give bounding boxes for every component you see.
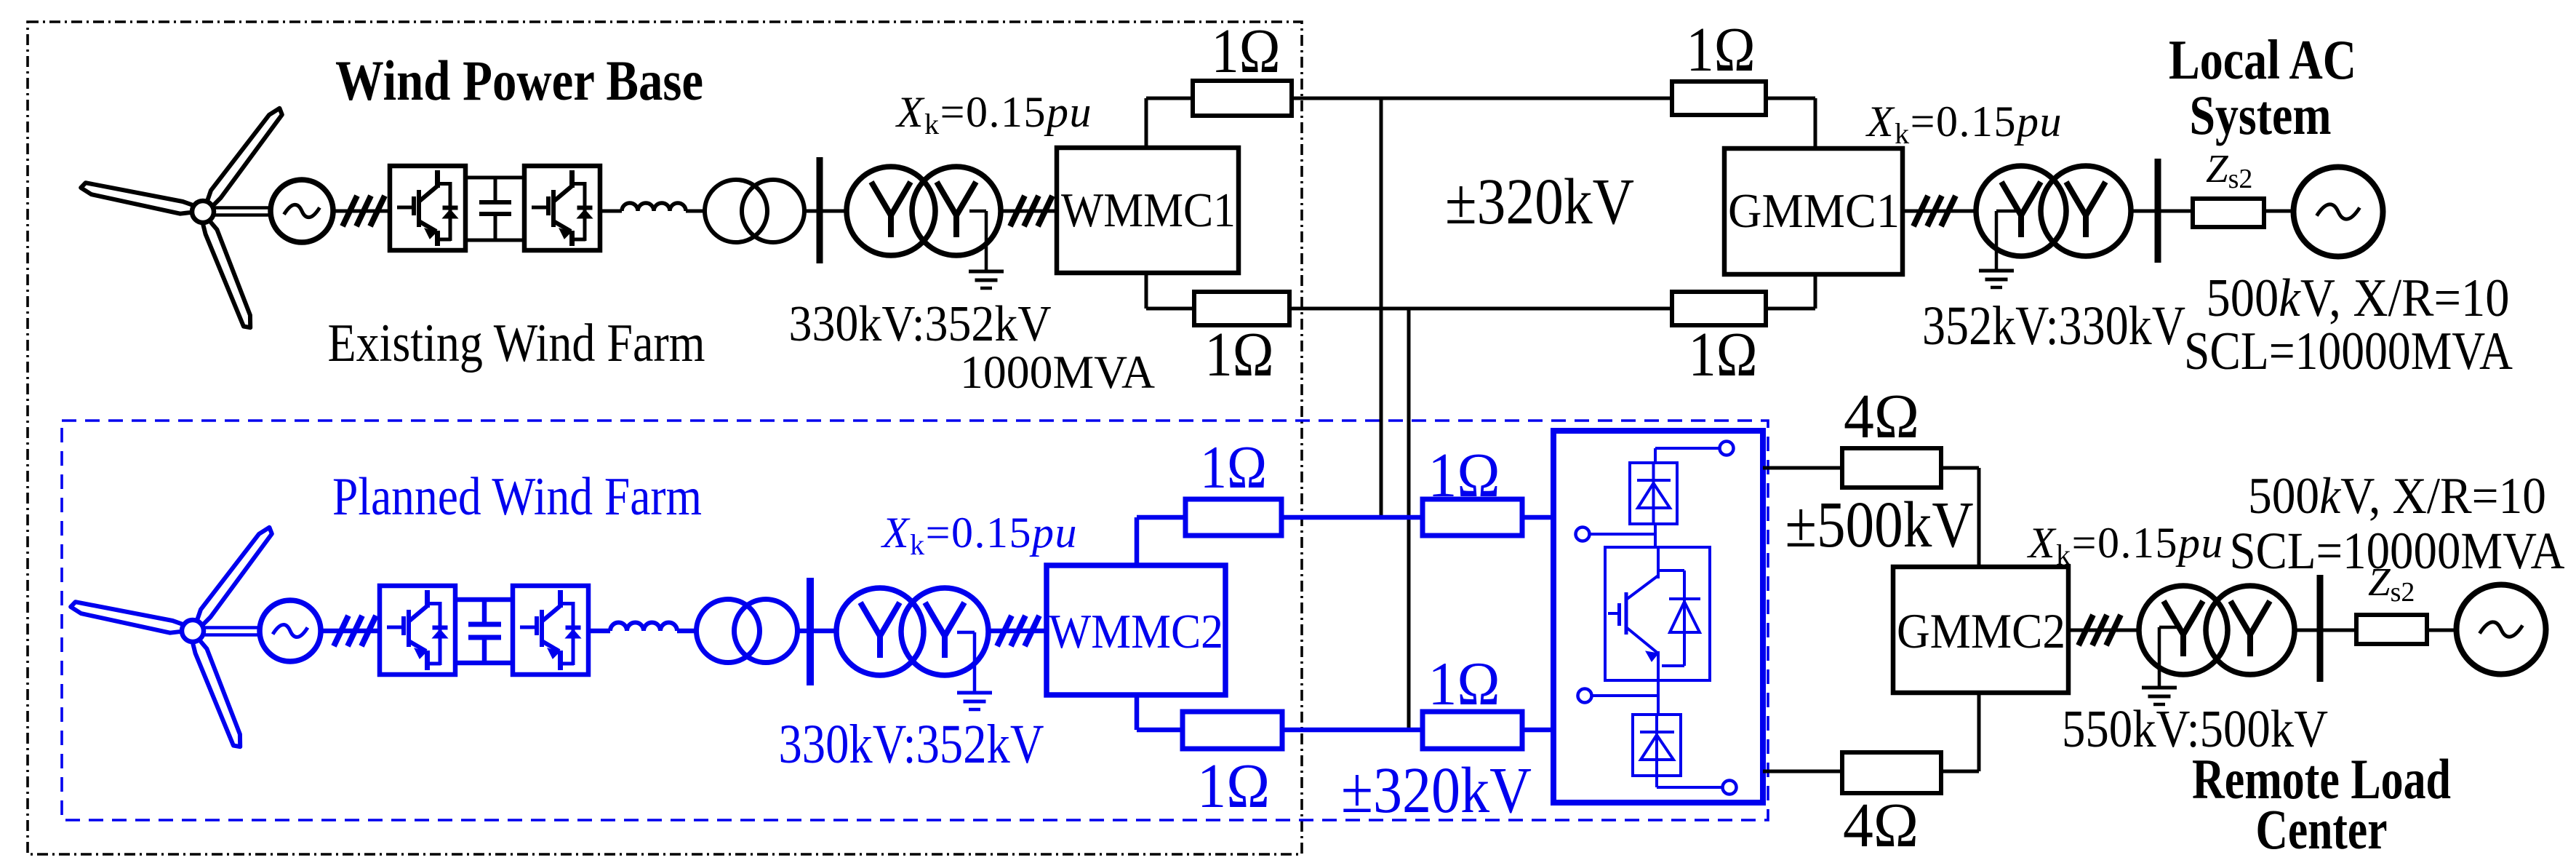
AC grid source G2 [2294, 167, 2383, 257]
svg-text:500kV, X/R=10: 500kV, X/R=10 [2207, 269, 2510, 328]
wire [1001, 210, 1057, 213]
resistor R7 1Ω [1183, 712, 1282, 749]
terminal node mid-left lower [1578, 689, 1592, 703]
wire [588, 629, 610, 634]
resistor R1 1Ω [1193, 81, 1292, 116]
wire WMMC1 bottom to R3 [1145, 271, 1148, 309]
dash-dot boundary of Wind Power Base [28, 22, 1302, 854]
converter WMMC2 [1047, 565, 1225, 695]
wire [1903, 210, 1977, 213]
hatch marks (3-phase) [343, 196, 357, 226]
wire [686, 210, 705, 213]
bus bar B2 [2155, 159, 2161, 263]
transformer T1 [705, 180, 767, 242]
wire [1655, 776, 1658, 787]
wire [1655, 447, 1719, 450]
wire [2068, 629, 2139, 632]
converter GMMC2 [1893, 567, 2068, 693]
svg-text:4Ω: 4Ω [1843, 790, 1919, 860]
resistor R8 1Ω [1423, 712, 1522, 749]
resistor R5 1Ω [1185, 499, 1281, 536]
svg-text:GMMC1: GMMC1 [1728, 184, 1900, 238]
svg-text:1Ω: 1Ω [1197, 750, 1270, 821]
converter VSC1 with IGBT [390, 166, 465, 250]
IGBT Q3 [1608, 612, 1619, 615]
svg-text:WMMC2: WMMC2 [1049, 605, 1223, 659]
AC grid source G4 [2457, 585, 2546, 675]
ground of T2 [969, 210, 986, 213]
terminal node mid-left upper [1576, 528, 1590, 541]
resistor R3 1Ω [1194, 292, 1289, 325]
svg-text:WMMC1: WMMC1 [1061, 183, 1236, 237]
wire [986, 629, 1047, 634]
svg-text:±320kV: ±320kV [1341, 755, 1532, 827]
svg-text:1Ω: 1Ω [1687, 14, 1756, 84]
terminal node top-right [1720, 442, 1734, 456]
wire [2264, 210, 2293, 213]
bus bar B4 [2317, 575, 2324, 682]
DC-link rail bottom [465, 239, 524, 242]
shaft wire [214, 206, 272, 210]
svg-text:±320kV: ±320kV [1445, 166, 1634, 238]
wind turbine WT2 [197, 528, 272, 625]
svg-text:1000MVA: 1000MVA [960, 346, 1155, 399]
wire [600, 210, 622, 213]
ground of T3 [1996, 210, 2016, 213]
ground of T6 [2159, 626, 2180, 629]
capacitor C2 [482, 600, 487, 624]
wire [1657, 651, 1660, 716]
wire [1654, 524, 1657, 549]
wire [331, 210, 390, 213]
resistor R2 1Ω [1672, 81, 1766, 115]
transformer T5 (Y-Y) [836, 588, 924, 675]
svg-text:±500kV: ±500kV [1785, 489, 1974, 561]
wire [797, 629, 838, 634]
wire DC tap A [1380, 97, 1383, 517]
svg-text:1Ω: 1Ω [1428, 650, 1500, 718]
wire [1941, 770, 1979, 773]
svg-text:Local AC: Local AC [2169, 28, 2356, 91]
transformer T4 [697, 600, 760, 663]
svg-text:SCL=10000MVA: SCL=10000MVA [2230, 522, 2565, 580]
diode module D1 [1630, 463, 1677, 524]
wire [1282, 728, 1423, 733]
svg-text:1Ω: 1Ω [1689, 319, 1758, 389]
DC/DC converter outer box [1553, 431, 1763, 803]
switch module box [1605, 547, 1710, 680]
converter WMMC1 [1057, 148, 1239, 273]
wire R2 to GMMC1 [1766, 97, 1815, 100]
converter GMMC1 [1724, 148, 1903, 274]
resistor R9 4Ω [1842, 448, 1941, 488]
wire DC pole positive [1292, 97, 1674, 100]
terminal node bottom-right [1723, 781, 1737, 795]
svg-text:1Ω: 1Ω [1205, 319, 1274, 389]
wire [2131, 210, 2193, 213]
wire [1657, 547, 1660, 578]
hatch marks (3-phase) [1913, 196, 1928, 226]
resistor R4 1Ω [1672, 292, 1766, 325]
wire [1763, 770, 1842, 773]
wire [319, 629, 380, 634]
wire R6 to DC/DC [1522, 515, 1556, 520]
svg-text:1Ω: 1Ω [1200, 434, 1267, 501]
wire [804, 210, 847, 213]
inductor L2 [610, 623, 677, 632]
DC-link rail bottom [454, 661, 513, 666]
DC-link rail top [465, 176, 524, 180]
diode module D3 [1633, 715, 1681, 776]
svg-text:Planned Wind Farm: Planned Wind Farm [332, 467, 702, 527]
transformer T3 (Y-Y) [1976, 166, 2066, 256]
wire DC tap B [1407, 307, 1411, 730]
svg-text:500kV, X/R=10: 500kV, X/R=10 [2248, 468, 2546, 525]
wire WMMC1 top to R1 [1145, 98, 1148, 150]
converter VSC3 with IGBT [380, 586, 455, 675]
bus bar B3 [807, 578, 814, 685]
svg-text:330kV:352kV: 330kV:352kV [789, 296, 1052, 352]
wire R8 to DC/DC [1522, 728, 1556, 733]
wire [1941, 466, 1979, 470]
svg-text:330kV:352kV: 330kV:352kV [779, 714, 1044, 775]
svg-text:Existing Wind Farm: Existing Wind Farm [328, 314, 705, 373]
wire DC pole negative [1289, 307, 1674, 311]
svg-text:1Ω: 1Ω [1428, 440, 1500, 510]
svg-text:4Ω: 4Ω [1844, 381, 1919, 451]
transformer T2 (Y-Y) [847, 167, 935, 255]
converter VSC4 with IGBT [513, 586, 588, 675]
AC machine G3 [260, 600, 321, 661]
blue dashed boundary of Planned Wind Farm [62, 421, 1768, 820]
resistor R10 4Ω [1842, 752, 1941, 793]
wire [2295, 629, 2356, 632]
transformer T6 (Y-Y) [2139, 586, 2228, 675]
DC-link rail top [454, 597, 513, 602]
svg-text:Wind Power Base: Wind Power Base [335, 49, 703, 112]
wire [1590, 533, 1655, 536]
hatch marks (3-phase) [2079, 615, 2093, 645]
bus bar B1 [817, 157, 823, 263]
capacitor C1 [494, 178, 497, 202]
svg-text:System: System [2190, 84, 2332, 146]
wire [2427, 629, 2456, 632]
impedance Zs2b [2356, 615, 2427, 644]
wire [1592, 694, 1658, 697]
svg-text:SCL=10000MVA: SCL=10000MVA [2184, 322, 2513, 381]
wire WMMC2 bottom to R7 [1135, 693, 1140, 730]
hatch marks (3-phase) [997, 616, 1012, 646]
wire [677, 629, 697, 634]
AC machine G1 [271, 180, 333, 242]
wind turbine WT1 [207, 108, 282, 206]
hatch marks (3-phase) [1010, 196, 1025, 226]
diode D2 [1658, 569, 1684, 572]
svg-text:352kV:330kV: 352kV:330kV [1922, 295, 2185, 357]
svg-text:Center: Center [2256, 798, 2388, 861]
ground of T5 [957, 631, 975, 635]
svg-text:GMMC2: GMMC2 [1897, 603, 2065, 659]
shaft wire [204, 626, 262, 629]
wire R4 to GMMC1 [1766, 307, 1815, 311]
impedance Zs2 [2193, 199, 2264, 227]
wire [1763, 466, 1842, 470]
wire [1281, 515, 1423, 520]
hatch marks (3-phase) [334, 616, 348, 646]
resistor R6 1Ω [1423, 499, 1522, 536]
svg-text:1Ω: 1Ω [1212, 15, 1281, 86]
inductor L1 [622, 203, 686, 211]
converter VSC2 with IGBT [524, 166, 600, 250]
wire WMMC2 top to R5 [1135, 517, 1140, 568]
